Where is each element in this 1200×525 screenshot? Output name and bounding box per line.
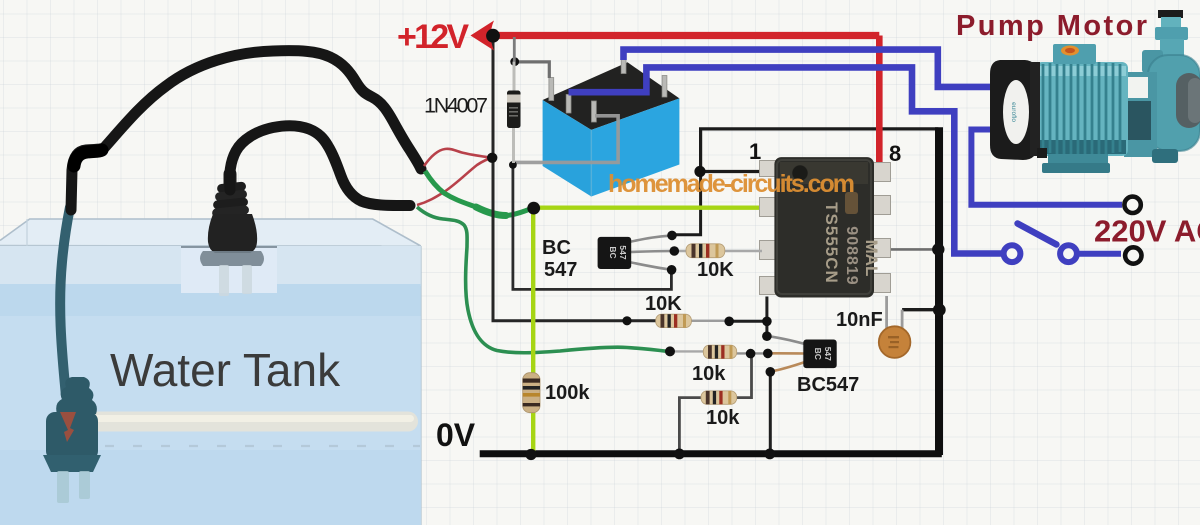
blue wire: pump lower terminal to 220V top terminal [971,130,1122,205]
svg-text:BC: BC [813,348,823,360]
resistor 10k R4 (Q2 base to ground) [701,391,737,404]
pump inlet knob [1176,73,1200,128]
svg-text:100k: 100k [545,382,590,404]
node bus pin6 [932,243,944,255]
node bottom bus Q2 emitter [764,449,775,460]
relay pins [549,54,667,123]
node: diode bottom junction [509,161,517,169]
relay (blue cube) [543,54,680,197]
svg-text:BC: BC [608,246,618,258]
node Q1 emitter [667,265,677,275]
ground bus bottom 0V [480,450,942,457]
sensor probe plug P1 submerged in tank [43,207,101,503]
capacitor 10nF C1 [879,296,911,358]
node R2 row right [762,317,772,327]
blue wire: relay pin P4 to switch [569,67,1003,253]
resistor 100k R5 (vertical on chartreuse) [523,373,540,413]
svg-text:10k: 10k [692,363,726,385]
motor body with fins [1036,62,1128,156]
node: diode top branch junction [510,57,519,66]
node Q1 base [670,246,680,256]
wire: 10nF cap to ground bus [902,308,938,311]
diode 1N4007 [507,37,521,163]
svg-text:1N4007: 1N4007 [424,94,488,118]
ground bus vertical right [935,127,943,455]
wire: 10k3 left lead to green node [668,350,704,352]
node R2 row left [622,316,631,325]
wire: pin6 to ground bus [889,248,936,251]
water surface dashes [105,445,420,447]
svg-text:220V AC: 220V AC [1094,214,1200,249]
svg-text:+12V: +12V [397,18,469,56]
wire: +12V branch down x=493 to 10K row [493,36,656,321]
red sensor wire from cable 2 to +12V node [417,158,492,205]
red +12V rail [397,18,879,165]
wire: diode bottom node down then right to Q1 emitter [513,165,672,290]
pump head volute [1148,55,1200,151]
svg-text:euroflo: euroflo [1010,102,1017,122]
sensor probe plug P2 at tank top [200,174,264,296]
node Q2 collector [762,331,772,341]
gray wire: diode top branch to relay pin P1 [515,62,550,78]
svg-text:MAL: MAL [862,240,881,277]
svg-text:547: 547 [618,245,628,259]
chartreuse wire: pin2 net horizontal and 100k vertical [533,208,761,452]
node Q2 base right [763,349,773,359]
node: +12V / sensor line junction [486,29,500,43]
sensor cable 1 (from submerged plug to circuit) [71,51,421,210]
IC 555 timer U1 [760,157,891,297]
node bus cap [933,304,946,317]
svg-text:10nF: 10nF [836,309,883,331]
resistor 10k R3 (green sensor to Q2 base) [703,345,736,358]
green sensor wire from cable 2, long curve to 10k resistor [417,207,668,353]
water tank [0,219,421,525]
svg-text:1: 1 [749,139,761,164]
svg-text:0V: 0V [436,417,476,453]
transistor Q1 BC547 [598,236,673,270]
wire: pin1 rail, top rail over IC into right ground bus [672,129,938,235]
node Q2 emitter [766,367,776,377]
svg-text:8: 8 [889,141,901,166]
svg-text:BC: BC [542,237,571,259]
gray wire: relay coil loop from diode node to pin P5 [513,116,618,163]
svg-text:Water Tank: Water Tank [110,344,341,396]
220V AC terminals [1124,197,1141,264]
node bottom bus chartreuse [525,449,536,460]
svg-text:547: 547 [823,347,833,361]
wire: Q2 emitter down to bus [769,372,772,454]
svg-text:908819: 908819 [843,226,860,285]
pump outlet top flange [1158,10,1183,18]
node R2 row mid [724,317,734,327]
svg-text:10k: 10k [706,407,740,429]
transistor Q2 BC547 [769,336,837,371]
motor top terminal block [1053,44,1096,64]
svg-text:BC547: BC547 [797,374,859,396]
bracket between motor and head [1124,72,1157,157]
switch (relay contact) [1004,224,1121,263]
svg-text:homemade-circuits.com: homemade-circuits.com [608,170,855,198]
wire: 10k4 frame (left lead down to bus, right lead up to base node) [679,355,751,455]
svg-text:547: 547 [544,259,577,281]
pump motor photo [990,10,1200,173]
svg-text:10K: 10K [645,293,682,315]
glass panel behind upper sensor plug [181,247,277,293]
node green to R3 [665,346,675,356]
green sensor wire from cable 1 to pin2 node (thick) [425,171,534,216]
wire: 10K row2 to pin4 vertical [691,297,767,337]
svg-text:Pump Motor: Pump Motor [956,10,1147,42]
node Q1 collector [667,231,677,241]
Water Tank label [110,344,341,396]
sensor cable 2 (from top plug to circuit) [230,126,410,206]
resistor 10K R1 (base of Q1 to pin3) [672,244,762,258]
svg-text:10K: 10K [697,259,734,281]
motor feet [1048,154,1108,164]
node dots [525,166,945,460]
water level tube [88,412,418,432]
node bottom bus R4 [674,449,685,460]
node green/chartreuse [527,202,540,215]
node Q2 base left [746,349,756,359]
motor black end cap [990,60,1037,160]
svg-text:TS555CN: TS555CN [822,202,841,284]
red sensor wire from cable 1 to +12V node [424,149,492,166]
wire: Q2 base row [737,352,766,354]
blue wire: relay pin P2 to pump upper terminal [624,50,994,87]
node: red sensor junction [487,153,497,163]
resistor 10K R2 (+12V row) [656,314,692,327]
node pin1 rail [694,166,705,177]
